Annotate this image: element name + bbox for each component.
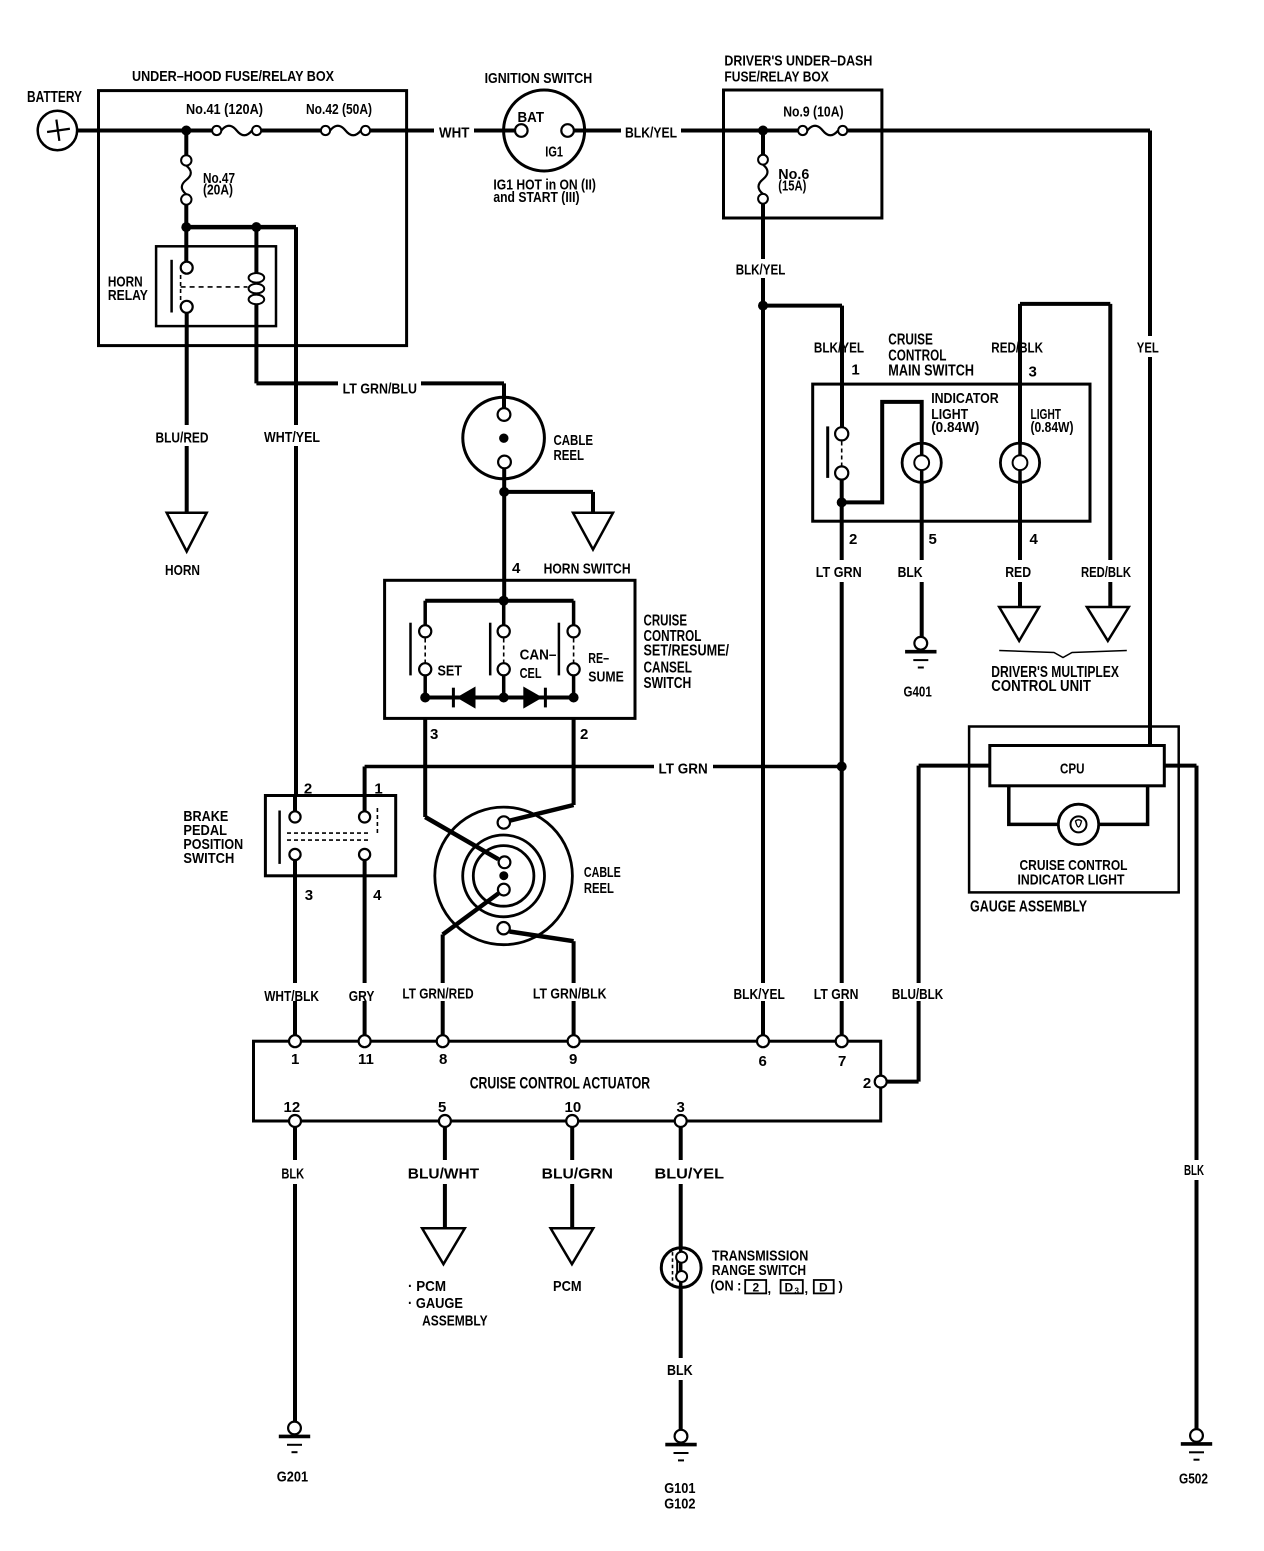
- svg-text:2: 2: [753, 1280, 760, 1294]
- note IG1 HOT: [493, 176, 596, 206]
- brake contact 4: [359, 849, 370, 860]
- svg-text:D: D: [785, 1280, 794, 1294]
- cable reel upper: [463, 397, 593, 479]
- wire BLK/YEL to under-dash box: [681, 129, 798, 133]
- brake contact 1: [359, 811, 370, 822]
- svg-text:LT GRN: LT GRN: [814, 986, 859, 1003]
- svg-text:CRUISE: CRUISE: [888, 332, 933, 349]
- svg-text:RELAY: RELAY: [108, 287, 148, 304]
- label LT GRN at actuator: [814, 986, 859, 1003]
- fuse No.47 (20A): [181, 131, 235, 205]
- svg-text:RED: RED: [1005, 564, 1031, 581]
- wire pin 5 BLK: [920, 482, 924, 560]
- svg-text:LT GRN/BLK: LT GRN/BLK: [533, 986, 607, 1003]
- wire CPU to indicator right: [1099, 786, 1148, 825]
- relay contact bar: [170, 260, 173, 313]
- wire BLU/GRN: [570, 1127, 574, 1229]
- wire BLU/YEL: [679, 1127, 683, 1248]
- label YEL: [1137, 340, 1159, 357]
- wire between fuses: [261, 129, 321, 133]
- node relay coil junction: [251, 222, 261, 232]
- pin 4 horn wire: [512, 560, 521, 577]
- pin 3 switch: [430, 726, 438, 743]
- svg-text:LT GRN/BLU: LT GRN/BLU: [343, 380, 417, 397]
- svg-text:10: 10: [565, 1099, 582, 1116]
- cruise control actuator box: [254, 1041, 881, 1121]
- brake contact 2: [289, 811, 300, 822]
- svg-text:CRUISE: CRUISE: [644, 613, 688, 630]
- actuator pin 2: [863, 1075, 887, 1092]
- node feed bus center: [499, 596, 509, 606]
- svg-text:G201: G201: [277, 1469, 308, 1486]
- label BLK/YEL: [736, 262, 786, 279]
- svg-text:INDICATOR: INDICATOR: [931, 390, 999, 407]
- svg-text:3: 3: [677, 1099, 685, 1116]
- svg-text:BLU/YEL: BLU/YEL: [655, 1166, 725, 1183]
- svg-text:3: 3: [795, 1286, 800, 1295]
- wire brake pin 4 stub: [363, 860, 367, 876]
- pin 2 brake switch: [304, 780, 312, 797]
- wire BLK transmission: [679, 1287, 683, 1429]
- ground G502: [1179, 1429, 1212, 1488]
- brake dashed h1: [287, 832, 371, 834]
- actuator pin 12: [284, 1099, 302, 1127]
- svg-text:RANGE SWITCH: RANGE SWITCH: [712, 1262, 806, 1279]
- arrow BLU/WHT to PCM: [422, 1228, 465, 1264]
- pin 4 brake switch: [373, 887, 382, 904]
- svg-text:ASSEMBLY: ASSEMBLY: [422, 1313, 488, 1330]
- brace multiplex: [999, 651, 1127, 658]
- label ON positions: [710, 1278, 842, 1296]
- svg-text:RED/BLK: RED/BLK: [991, 340, 1043, 357]
- svg-text:2: 2: [863, 1075, 871, 1092]
- label WHT: [439, 124, 469, 141]
- terminal BAT: [515, 109, 544, 137]
- wire BLK from CPU: [1164, 766, 1196, 1430]
- node LT GRN junction: [837, 762, 847, 772]
- diode D1: [453, 687, 475, 709]
- node horn switch junction: [499, 487, 509, 497]
- fuse No.41 (120A): [186, 101, 263, 135]
- svg-text:CRUISE CONTROL ACTUATOR: CRUISE CONTROL ACTUATOR: [470, 1074, 650, 1093]
- horn relay box: [108, 246, 276, 326]
- wire BLK/YEL to right edge: [847, 129, 1150, 133]
- svg-text:PCM: PCM: [553, 1278, 582, 1295]
- label BLK: [898, 564, 923, 581]
- pin 3 main switch: [1029, 364, 1037, 381]
- svg-text:LT GRN: LT GRN: [659, 760, 708, 777]
- brake dashed h2: [287, 839, 371, 841]
- svg-text:9: 9: [569, 1051, 577, 1068]
- label LT GRN: [816, 564, 862, 581]
- label GRY: [349, 988, 375, 1005]
- svg-text:(ON :: (ON :: [710, 1278, 741, 1295]
- wire BLK/YEL below box: [761, 204, 765, 259]
- label BLK/YEL at pin 1: [814, 339, 864, 356]
- node battery feed junction: [181, 126, 191, 136]
- svg-text:REEL: REEL: [554, 447, 585, 464]
- svg-text:BLU/GRN: BLU/GRN: [542, 1166, 613, 1183]
- pin 2 switch: [580, 726, 588, 743]
- svg-text:LT GRN/RED: LT GRN/RED: [402, 986, 473, 1003]
- svg-text:G401: G401: [904, 683, 932, 700]
- cable reel upper center: [499, 434, 508, 443]
- svg-text:G102: G102: [664, 1496, 695, 1513]
- label BLK: [281, 1166, 304, 1183]
- label DRIVER'S MULTIPLEX CONTROL UNIT: [991, 664, 1119, 695]
- svg-text:SWITCH: SWITCH: [644, 675, 692, 692]
- label BLK/YEL at actuator: [734, 986, 785, 1003]
- svg-text:RED/BLK: RED/BLK: [1081, 564, 1131, 581]
- node relay bus left: [181, 222, 191, 232]
- pin 2 main switch: [849, 531, 857, 548]
- node BLK/YEL branch junction: [758, 301, 768, 311]
- svg-text:6: 6: [759, 1053, 767, 1070]
- label RESUME: [588, 650, 624, 685]
- svg-text:BLU/BLK: BLU/BLK: [892, 986, 943, 1003]
- svg-text:BLK/YEL: BLK/YEL: [814, 339, 864, 356]
- svg-text:WHT: WHT: [439, 124, 469, 141]
- brake dashed v: [376, 808, 378, 836]
- fuse No.9 (10A): [783, 103, 847, 135]
- cable reel lower center: [499, 871, 508, 880]
- label WHT/YEL: [264, 429, 320, 446]
- svg-text:No.42 (50A): No.42 (50A): [306, 101, 372, 118]
- svg-text:D: D: [819, 1280, 828, 1294]
- wire GRY: [363, 876, 367, 1035]
- svg-text:UNDER–HOOD FUSE/RELAY BOX: UNDER–HOOD FUSE/RELAY BOX: [132, 68, 334, 85]
- label BLU/WHT: [408, 1166, 479, 1183]
- wire LT GRN/BLK diagonal: [510, 932, 574, 942]
- under-hood fuse/relay box: [99, 68, 407, 346]
- svg-text:IGNITION SWITCH: IGNITION SWITCH: [485, 70, 593, 87]
- svg-text:· PCM: · PCM: [408, 1278, 446, 1295]
- brake switch bar: [278, 811, 281, 864]
- transmission contact bottom: [676, 1271, 687, 1282]
- svg-text:and START (III): and START (III): [493, 189, 579, 206]
- wire pin 2 inside box: [840, 480, 844, 503]
- svg-text:4: 4: [373, 887, 382, 904]
- wire LT GRN/BLU to cable reel: [421, 383, 504, 409]
- label BLU/GRN: [542, 1166, 613, 1183]
- svg-text:No.9 (10A): No.9 (10A): [783, 103, 843, 120]
- svg-text:3: 3: [430, 726, 438, 743]
- svg-text:RE–: RE–: [588, 650, 609, 667]
- wire WHT to ignition switch: [370, 129, 434, 133]
- wire LT GRN to actuator pin 7: [840, 582, 844, 1035]
- svg-text:SET/RESUME/: SET/RESUME/: [644, 642, 730, 659]
- svg-text:BLK: BLK: [281, 1166, 304, 1183]
- pin 5 main switch: [929, 531, 937, 548]
- actuator pin 1: [289, 1035, 301, 1068]
- CANCEL contact bar: [489, 623, 492, 676]
- label CANCEL: [520, 647, 557, 682]
- svg-text:CONTROL UNIT: CONTROL UNIT: [991, 678, 1091, 695]
- arrow horn switch: [573, 513, 613, 550]
- arrow RED to multiplex: [999, 607, 1039, 641]
- cable reel lower: [435, 807, 621, 945]
- wire LT GRN/BLU: [256, 381, 338, 385]
- wire CANCEL to diode bus: [502, 675, 506, 697]
- gauge assembly box: [969, 727, 1179, 916]
- cable reel lower terminal mid-top: [499, 856, 511, 868]
- svg-text:BATTERY: BATTERY: [27, 89, 82, 106]
- svg-text:11: 11: [358, 1051, 374, 1068]
- wire pin 4 RED: [1018, 482, 1022, 560]
- SET contact bar: [409, 623, 412, 676]
- arrow BLU/GRN to PCM: [551, 1228, 594, 1264]
- svg-text:MAIN SWITCH: MAIN SWITCH: [888, 362, 974, 379]
- wire BLU/BLK: [887, 766, 990, 1082]
- svg-text:HORN: HORN: [165, 562, 200, 579]
- svg-text:GRY: GRY: [349, 988, 375, 1005]
- wire LT GRN to junction: [713, 765, 842, 769]
- label LT GRN/BLK: [533, 986, 607, 1003]
- wire LT GRN from pin 2: [840, 502, 844, 560]
- label LT GRN: [659, 760, 708, 777]
- svg-text:BLU/WHT: BLU/WHT: [408, 1166, 479, 1183]
- svg-text:2: 2: [580, 726, 588, 743]
- svg-text:LT GRN: LT GRN: [816, 564, 862, 581]
- svg-text:CPU: CPU: [1060, 760, 1085, 777]
- wire RED to multiplex unit: [1018, 582, 1022, 607]
- wire SET to diode bus: [423, 675, 427, 697]
- svg-text:,: ,: [805, 1281, 809, 1296]
- svg-text:BLK: BLK: [667, 1362, 693, 1379]
- ground G401: [904, 637, 937, 701]
- wire WHT battery to fuse box: [77, 129, 212, 133]
- CPU: [990, 746, 1165, 786]
- svg-text:GAUGE ASSEMBLY: GAUGE ASSEMBLY: [970, 899, 1087, 916]
- svg-text:4: 4: [1030, 531, 1039, 548]
- svg-text:INDICATOR LIGHT: INDICATOR LIGHT: [1018, 871, 1125, 888]
- main switch contact top: [835, 427, 848, 440]
- svg-text:IG1: IG1: [545, 143, 563, 160]
- diode D2: [523, 687, 545, 709]
- wire drop RESUME: [572, 601, 576, 626]
- switch feed bus: [425, 599, 573, 603]
- actuator pin 8: [437, 1035, 449, 1068]
- svg-text:BAT: BAT: [518, 109, 545, 126]
- arrow to horn: [167, 513, 207, 552]
- label RED: [1005, 564, 1031, 581]
- label BLK transmission: [667, 1362, 693, 1379]
- svg-text:WHT/YEL: WHT/YEL: [264, 429, 320, 446]
- svg-text:CEL: CEL: [520, 665, 542, 682]
- svg-text:HORN SWITCH: HORN SWITCH: [544, 560, 631, 577]
- svg-text:(0.84W): (0.84W): [931, 419, 979, 436]
- wire relay bus: [186, 225, 296, 230]
- svg-text:BLK: BLK: [1184, 1162, 1204, 1179]
- cable reel lower terminal top: [498, 816, 510, 828]
- actuator pin 3: [675, 1099, 687, 1127]
- svg-text:FUSE/RELAY BOX: FUSE/RELAY BOX: [724, 68, 828, 85]
- wire CPU to indicator left: [1009, 786, 1059, 825]
- relay armature dashed: [181, 286, 248, 288]
- relay contact top: [181, 262, 193, 274]
- label HORN: [165, 562, 200, 579]
- ignition switch: [485, 70, 593, 171]
- wire brake pin 1 riser: [363, 767, 367, 796]
- wire RED/BLK right vertical: [1108, 304, 1112, 607]
- wire RED/BLK top link: [1020, 302, 1110, 306]
- actuator pin 7: [836, 1035, 848, 1070]
- svg-text:YEL: YEL: [1137, 340, 1159, 357]
- ground G101 G102: [664, 1430, 697, 1513]
- wire BLK/YEL to actuator pin 6: [761, 306, 765, 1036]
- label WHT/BLK: [264, 988, 319, 1005]
- svg-text:DRIVER'S UNDER–DASH: DRIVER'S UNDER–DASH: [724, 53, 872, 70]
- svg-text:G502: G502: [1179, 1471, 1208, 1488]
- SET contact: [419, 625, 431, 675]
- arrow RED/BLK to multiplex: [1087, 607, 1129, 641]
- wire brake pin 3 stub: [293, 860, 297, 876]
- note PCM: [553, 1278, 582, 1295]
- relay contact bottom: [181, 301, 193, 313]
- wire WHT/BLK: [293, 876, 297, 1035]
- cable reel upper terminal bottom: [498, 456, 511, 469]
- label RED/BLK at pin 3: [991, 340, 1043, 357]
- svg-text:BLK/YEL: BLK/YEL: [625, 124, 677, 141]
- node main switch junction: [837, 497, 847, 507]
- brake contact 3: [289, 849, 300, 860]
- svg-text:SUME: SUME: [588, 669, 624, 686]
- svg-text:5: 5: [438, 1099, 446, 1116]
- node under-dash feed junction: [758, 126, 768, 136]
- svg-text:WHT/BLK: WHT/BLK: [264, 988, 319, 1005]
- svg-text:CAN–: CAN–: [520, 647, 557, 664]
- wire BLU/WHT: [443, 1127, 447, 1229]
- svg-text:(20A): (20A): [203, 182, 233, 199]
- label BLU/BLK: [892, 986, 943, 1003]
- wire BLU/RED: [185, 313, 189, 513]
- wire LT GRN horizontal: [365, 765, 654, 769]
- svg-text:4: 4: [512, 560, 521, 577]
- wire BLK/YEL branch to main switch pin 1: [763, 306, 842, 428]
- label LT GRN/BLU: [343, 380, 417, 397]
- wire RESUME to diode bus: [572, 675, 576, 697]
- wire pin 2 to cable reel: [509, 718, 574, 821]
- fuse No.42 (50A): [306, 101, 372, 135]
- wire BLK pin 12: [293, 1127, 297, 1422]
- svg-text:8: 8: [439, 1051, 447, 1068]
- cable reel lower terminal mid-bottom: [498, 884, 510, 896]
- driver's under-dash fuse/relay box: [724, 53, 882, 218]
- label SET: [438, 663, 463, 680]
- RESUME contact bar: [558, 623, 561, 676]
- light bulb: [1000, 406, 1073, 482]
- pin 1 brake switch: [374, 780, 382, 797]
- svg-text:,: ,: [768, 1281, 772, 1296]
- svg-text:1: 1: [851, 362, 859, 379]
- actuator pin 10: [565, 1099, 582, 1127]
- wire No.47 to relay bus: [184, 205, 188, 227]
- wire reel to horn switch node: [502, 468, 506, 492]
- svg-text:12: 12: [284, 1099, 301, 1116]
- label RED/BLK: [1081, 564, 1131, 581]
- actuator pin 11: [358, 1035, 374, 1068]
- CANCEL contact: [498, 625, 510, 675]
- svg-text:1: 1: [291, 1051, 299, 1068]
- wire drop SET: [423, 601, 427, 626]
- wire LT GRN/RED: [441, 935, 445, 1036]
- svg-text:REEL: REEL: [584, 880, 614, 897]
- fuse No.6 (15A): [758, 131, 809, 204]
- brake pedal position switch box: [183, 796, 395, 876]
- actuator pin 6: [757, 1035, 769, 1070]
- relay contact dashed: [180, 275, 182, 301]
- svg-text:BLU/RED: BLU/RED: [156, 430, 209, 447]
- svg-text:BLK: BLK: [898, 564, 923, 581]
- wire YEL vertical: [1148, 131, 1152, 746]
- relay coil: [249, 227, 265, 304]
- wire coil bottom: [254, 304, 258, 383]
- cruise control main switch box: [813, 332, 1090, 522]
- main switch contact dashed: [841, 442, 843, 466]
- wire to indicator light: [842, 402, 922, 503]
- wire BLK/YEL to branch: [761, 278, 765, 306]
- svg-text:3: 3: [1029, 364, 1037, 381]
- wire BLK to ground: [920, 582, 924, 637]
- svg-text:(0.84W): (0.84W): [1031, 419, 1074, 436]
- indicator light bulb: [902, 390, 999, 482]
- pin 3 brake switch: [305, 887, 313, 904]
- svg-text:): ): [839, 1279, 843, 1294]
- svg-text:3: 3: [305, 887, 313, 904]
- svg-text:BLK/YEL: BLK/YEL: [734, 986, 785, 1003]
- transmission range switch: [661, 1248, 701, 1288]
- label BLU/YEL: [655, 1166, 725, 1183]
- pin 4 main switch: [1030, 531, 1039, 548]
- svg-text:· GAUGE: · GAUGE: [408, 1295, 463, 1312]
- svg-text:(15A): (15A): [778, 177, 806, 194]
- actuator pin 9: [568, 1035, 580, 1068]
- note PCM / GAUGE ASSEMBLY: [408, 1278, 488, 1330]
- transmission contact top: [676, 1252, 687, 1263]
- diode bus: [420, 693, 578, 703]
- wire LT GRN/RED diagonal: [443, 894, 499, 935]
- terminal IG1: [545, 124, 574, 160]
- svg-text:BLK/YEL: BLK/YEL: [736, 262, 786, 279]
- svg-text:SET: SET: [438, 663, 463, 680]
- svg-text:2: 2: [849, 531, 857, 548]
- wire RED/BLK pin 3 riser: [1018, 304, 1022, 443]
- wire pin 3 to cable reel: [425, 718, 498, 859]
- wire brake pin 1 stub: [363, 796, 367, 812]
- svg-text:No.41 (120A): No.41 (120A): [186, 101, 263, 118]
- wire drop CANCEL: [502, 601, 506, 626]
- label BLK/YEL: [625, 124, 677, 141]
- pin 1 main switch: [851, 362, 859, 379]
- label BLU/RED: [156, 430, 209, 447]
- wire brake pin 2 stub: [293, 796, 297, 812]
- label HORN SWITCH: [544, 560, 631, 577]
- svg-text:SWITCH: SWITCH: [183, 850, 234, 867]
- label TRANSMISSION RANGE SWITCH: [712, 1248, 808, 1279]
- cruise control indicator light: [1018, 804, 1128, 888]
- svg-text:5: 5: [929, 531, 937, 548]
- wire WHT/YEL: [294, 227, 298, 795]
- wire WHT label to BAT terminal: [474, 129, 515, 133]
- cable reel lower terminal bottom: [497, 922, 509, 934]
- wire relay contact feed: [184, 227, 188, 262]
- wire to set/resume switch: [502, 492, 506, 601]
- RESUME contact: [568, 625, 580, 675]
- actuator pin 5: [438, 1099, 451, 1127]
- battery: [27, 89, 82, 150]
- cruise set/resume/cancel switch box: [385, 580, 730, 718]
- ground G201: [277, 1422, 310, 1486]
